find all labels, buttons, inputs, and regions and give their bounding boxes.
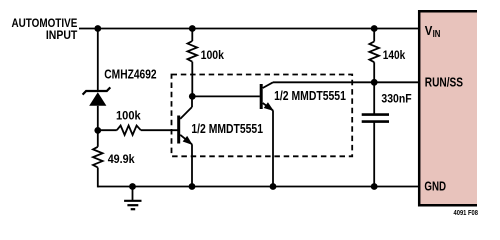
svg-text:100k: 100k (201, 48, 225, 62)
svg-text:100k: 100k (116, 108, 141, 122)
transistor Q2 1/2 MMDT5551 (260, 82, 276, 187)
svg-text:V: V (425, 23, 433, 38)
junction dot RUN/SS at 140k/330nF (371, 79, 378, 86)
capacitor 330nF (362, 82, 389, 187)
svg-text:140k: 140k (383, 48, 406, 62)
zener diode CMHZ4692 (83, 87, 111, 105)
label AUTOMOTIVE INPUT (12, 16, 78, 42)
junction dot Q1 collector / Q2 base (189, 93, 196, 100)
svg-text:GND: GND (424, 178, 446, 193)
svg-text:IN: IN (433, 29, 441, 40)
svg-text:1/2 MMDT5551: 1/2 MMDT5551 (191, 122, 263, 136)
pin label VIN (425, 23, 441, 40)
resistor 140k (369, 29, 379, 83)
svg-text:INPUT: INPUT (46, 28, 78, 42)
junction dot bottom rail at Q1 emitter (189, 183, 196, 190)
resistor 100k (collector, top middle) (188, 29, 198, 97)
wire top rail VIN net (79, 28, 419, 30)
junction dot top rail at 100k branch (189, 25, 196, 32)
wire Q2 collector to RUN/SS (273, 81, 419, 83)
transistor Q1 1/2 MMDT5551 (177, 96, 195, 187)
wire Q1 collector to Q2 base (192, 95, 260, 97)
svg-text:1/2 MMDT5551: 1/2 MMDT5551 (274, 89, 346, 103)
resistor 100k (base, horizontal) (98, 125, 178, 134)
junction dot top rail at zener branch (94, 25, 101, 32)
node A junction dot (94, 127, 101, 134)
dashed box MMDT5551 package (172, 75, 353, 157)
wire zener branch upper (97, 29, 99, 92)
svg-text:CMHZ4692: CMHZ4692 (104, 68, 156, 82)
junction dot bottom rail at Q2 emitter (270, 183, 277, 190)
svg-text:4091 F08: 4091 F08 (454, 210, 479, 217)
svg-text:330nF: 330nF (381, 91, 411, 105)
junction dot bottom rail at 330nF (371, 183, 378, 190)
svg-text:49.9k: 49.9k (108, 152, 135, 166)
IC block U1 (VIN/RUN/SS/GND device) (418, 10, 477, 207)
wire zener anode to node A (97, 106, 99, 134)
junction dot bottom rail at ground (129, 183, 136, 190)
resistor 49.9k (93, 130, 103, 187)
ground (124, 187, 141, 210)
junction dot top rail at 140k branch (371, 25, 378, 32)
wire bottom rail GND net (98, 186, 419, 188)
svg-text:RUN/SS: RUN/SS (425, 75, 463, 90)
